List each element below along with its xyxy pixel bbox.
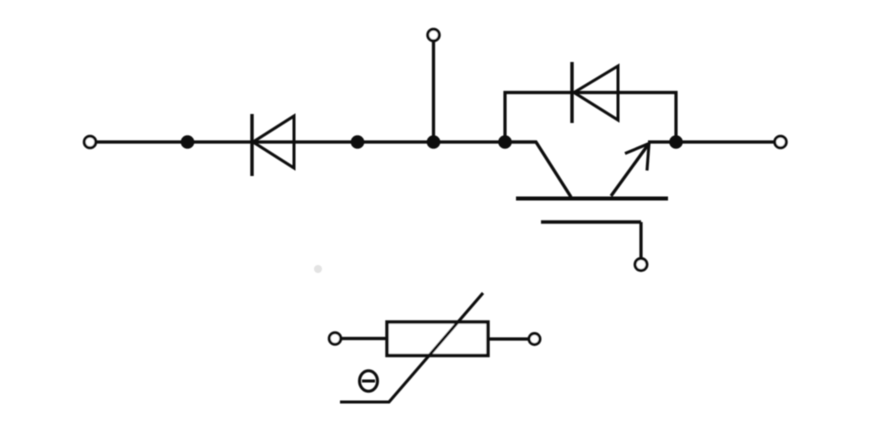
node: junction at top tap: [427, 135, 441, 149]
wire: thermistor right lead: [488, 337, 529, 340]
terminal T2 (top): [428, 29, 440, 41]
thermistor RT1 (body): [387, 322, 488, 356]
wire: emitter to right terminal: [648, 140, 774, 143]
thermistor RT1 (diagonal stroke with foot): [340, 293, 483, 402]
transistor Q1 IGBT (gate bar): [541, 220, 641, 224]
diode D1 (cathode bar): [250, 114, 253, 176]
wire: freewheel loop (left riser, top rail, right riser): [505, 93, 676, 143]
terminal T6 (thermistor right): [529, 334, 540, 345]
transistor Q1 IGBT (body bar): [516, 197, 668, 201]
wire: gate bar down to gate terminal: [639, 222, 642, 258]
node: junction at IGBT emitter: [669, 135, 683, 149]
scan artifact speck: [314, 265, 322, 273]
wire: left terminal to diode D1: [97, 140, 253, 143]
node: junction at IGBT collector: [498, 135, 512, 149]
label: theta symbol: [360, 371, 378, 391]
node: junction below thermistor tap: [351, 135, 365, 149]
transistor Q1 IGBT (collector lead): [505, 142, 571, 197]
terminal T3 (right): [775, 136, 787, 148]
terminal T4 (gate): [635, 259, 647, 271]
wire: tap up to top terminal: [432, 41, 435, 142]
transistor Q1 IGBT (emitter lead): [611, 144, 649, 197]
transistor Q1 IGBT (emitter arrowhead): [625, 144, 649, 171]
diode D2 antiparallel (cathode bar): [570, 62, 573, 123]
wire: diode D1 to IGBT collector node: [252, 140, 536, 143]
node: junction on left rail: [181, 135, 195, 149]
wire: thermistor left lead: [342, 337, 388, 340]
diode D1 (triangle): [253, 116, 294, 168]
terminal T5 (thermistor left): [329, 333, 341, 345]
terminal T1 (left): [84, 136, 96, 148]
diode D2 antiparallel (triangle): [574, 66, 618, 120]
